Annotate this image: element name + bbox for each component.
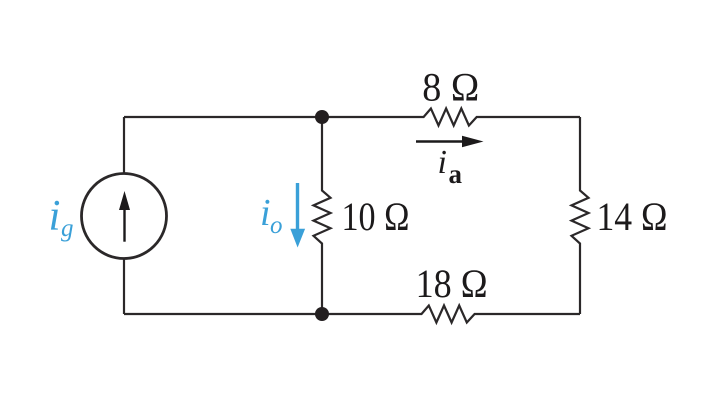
svg-text:14 Ω: 14 Ω (597, 194, 668, 239)
svg-text:10 Ω: 10 Ω (342, 194, 410, 239)
svg-text:i: i (260, 192, 271, 234)
svg-text:o: o (270, 212, 283, 239)
svg-text:i: i (49, 193, 61, 240)
svg-text:18 Ω: 18 Ω (416, 261, 488, 306)
svg-text:8 Ω: 8 Ω (422, 65, 479, 110)
svg-text:i: i (438, 144, 447, 181)
svg-text:g: g (61, 215, 74, 242)
svg-text:a: a (449, 159, 463, 189)
